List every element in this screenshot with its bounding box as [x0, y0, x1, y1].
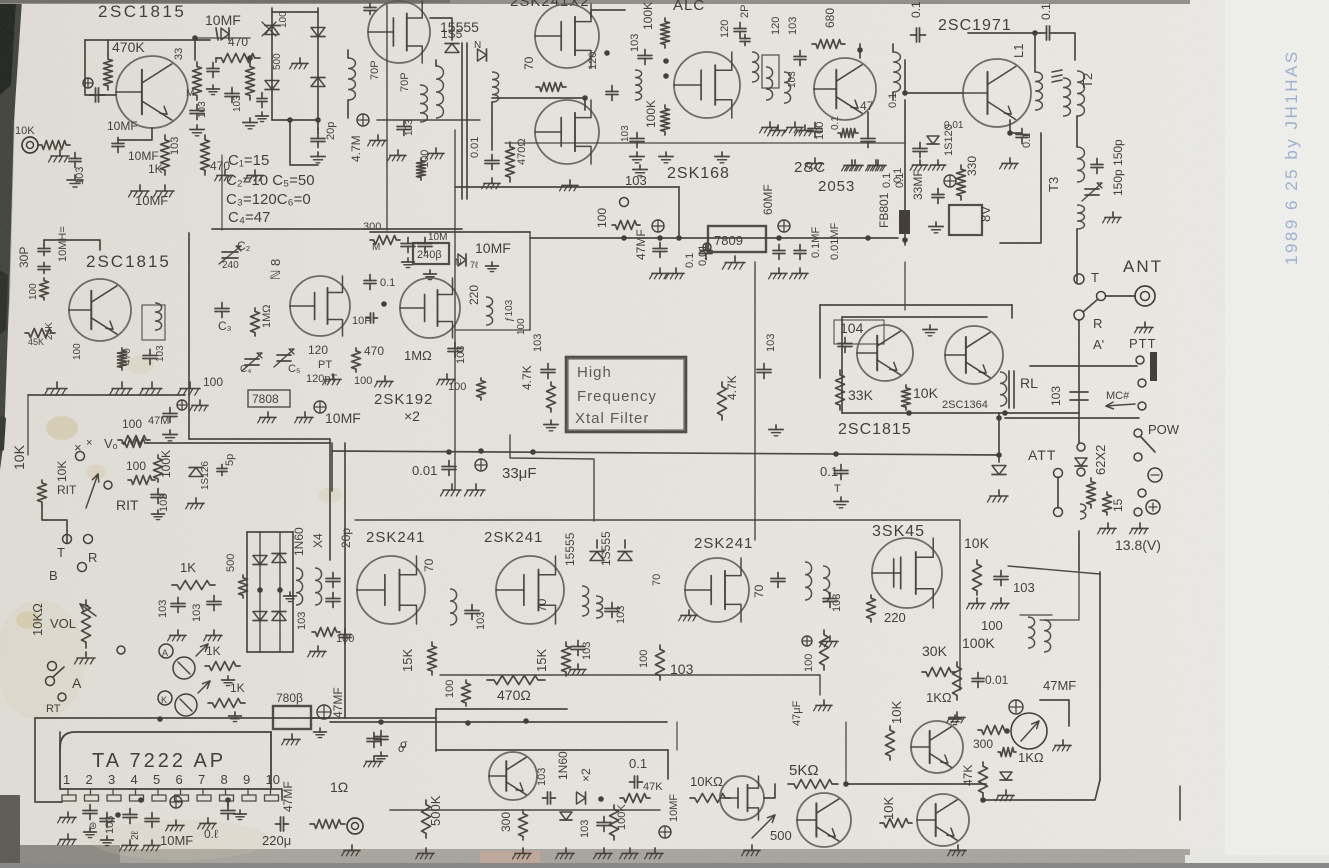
label 100 u9: [981, 618, 1003, 633]
label 100 u6b: [444, 680, 456, 698]
gnd att2: [1130, 523, 1149, 534]
cc ta: [170, 796, 182, 808]
switch pow: [1134, 429, 1155, 452]
fet U4 2SK192a: [290, 276, 350, 336]
wire ta right: [271, 789, 282, 800]
resistor 470 em: [201, 135, 210, 175]
resistor led k: [208, 699, 245, 708]
label T rail: [834, 483, 841, 495]
gnd 7809r: [769, 268, 788, 279]
label 300 vxo: [363, 221, 381, 233]
label B: [49, 568, 58, 583]
resistor 10k au: [690, 794, 730, 803]
box xtal filter: [566, 357, 686, 432]
gnd 10mf: [295, 412, 313, 423]
gnd u4c: [437, 374, 455, 385]
label 0.1 b: [830, 116, 841, 130]
gnd att1: [1098, 523, 1117, 534]
gnd q2c: [845, 160, 864, 171]
capacitor u3 top: [734, 23, 746, 38]
note C1=15: [228, 152, 269, 169]
label 2P: [739, 5, 751, 18]
label 103 rit: [158, 494, 170, 512]
label 500K: [428, 795, 443, 826]
capacitor b2: [808, 123, 822, 138]
wire relay vert: [996, 413, 1002, 462]
resistor 680: [812, 40, 845, 49]
wire agc rail2: [980, 780, 1100, 803]
label 103 u2: [625, 173, 647, 188]
resistor 300 vxo: [370, 236, 400, 245]
resistor att: [1087, 478, 1096, 508]
gnd zener: [996, 790, 1015, 801]
wire rx top frame: [355, 520, 960, 690]
fet U7: [496, 556, 564, 624]
wire rt vert: [35, 718, 60, 802]
resistor 10k q8: [880, 819, 912, 828]
capacitor u9: [994, 571, 1008, 586]
wire bridge bot: [272, 119, 318, 121]
label 1KOhm q7: [0, 0, 1, 1]
diode rx1: [590, 552, 604, 561]
label FB801: [877, 192, 891, 228]
box 7808 b: [273, 706, 311, 729]
coil T3b: [1077, 205, 1084, 229]
capacitor alc: [638, 50, 652, 65]
label 103 au2: [579, 820, 591, 838]
gnd led k: [229, 712, 242, 722]
label 70 u8b: [752, 584, 766, 598]
label 120pT: [306, 373, 337, 385]
resistor u8: [656, 645, 665, 680]
gnd col2: [243, 118, 257, 129]
capacitor t1: [397, 121, 411, 136]
switch A2: [46, 667, 65, 686]
diode 1s55: [445, 44, 459, 53]
label 15555: [440, 19, 479, 35]
gnd em2: [154, 185, 175, 197]
pot vol: [80, 600, 96, 648]
capacitor 5p: [217, 465, 227, 476]
gnd rail2: [465, 484, 486, 496]
gnd xfL: [544, 420, 558, 431]
wire emitter: [118, 128, 152, 140]
gnd bridge: [290, 58, 308, 69]
capacitor 47m: [163, 408, 177, 423]
gnd fb2: [928, 160, 945, 170]
label 2SK192: [374, 391, 433, 408]
label 0.1 fb: [892, 168, 904, 183]
switch ptt: [1136, 356, 1144, 364]
resistor 470 vxo: [118, 348, 127, 370]
wire note frame: [221, 155, 223, 230]
label 300 au: [499, 812, 513, 832]
gnd u9b: [991, 598, 1010, 609]
label High: [577, 364, 612, 381]
label 103 dsw: [296, 612, 308, 630]
wire rx bus: [754, 262, 756, 540]
label 103 u7: [615, 606, 627, 624]
gnd b4: [842, 160, 861, 171]
coil u6: [450, 589, 457, 625]
wire 33 node: [194, 38, 196, 60]
wire vxo rail: [28, 394, 185, 396]
switch mid2: [1077, 468, 1085, 476]
label 10MF top: [205, 12, 241, 28]
label 5KOhm: [789, 762, 819, 779]
gnd b3: [805, 158, 824, 169]
coil b3: [784, 72, 791, 103]
gnd t1: [368, 135, 386, 146]
label 100 u5: [448, 381, 466, 393]
gnd q8: [948, 845, 967, 856]
label 10K mic: [15, 125, 35, 137]
gnd 47m: [163, 430, 177, 441]
capacitor au4: [630, 776, 643, 788]
gnd 33: [190, 125, 204, 136]
gnd 7809: [722, 256, 745, 269]
wire base top: [85, 35, 210, 55]
resistor 4.7K R: [718, 382, 727, 420]
label 47MF ta: [281, 781, 295, 812]
capacitor xf L: [541, 364, 555, 379]
wire q2 out: [892, 44, 894, 100]
cap-plus fb: [944, 175, 956, 187]
label 100 dsw: [336, 633, 354, 645]
label 10KOhm au: [690, 774, 723, 789]
resistor gate u2: [536, 83, 566, 92]
wire filter top: [377, 119, 480, 121]
switch arm R: [1074, 299, 1098, 320]
diode 10mf: [455, 254, 466, 267]
wire coil lead: [491, 102, 493, 150]
label 103 au: [536, 768, 548, 786]
resistor 100k au: [610, 805, 619, 840]
label 15: [1111, 498, 1125, 512]
led K: [175, 681, 210, 716]
capacitor au2: [543, 792, 556, 804]
label 62X2: [1093, 445, 1108, 475]
capacitor 0.01a: [485, 155, 499, 170]
gnd 7808b2: [282, 734, 300, 745]
coil T1c: [436, 66, 443, 118]
label 15K u7: [534, 649, 549, 672]
coil vxo: [155, 303, 162, 330]
switch A3: [58, 693, 66, 701]
cap-plus 4.7M: [357, 114, 369, 126]
gnd aux tl2: [256, 112, 269, 122]
diode sw4: [272, 612, 286, 621]
resistor 10K u9: [973, 560, 982, 595]
coil T2b: [1077, 71, 1084, 116]
resistor 4.7K L: [547, 382, 556, 412]
label 1N60: [292, 527, 306, 556]
resistor col2: [246, 62, 255, 100]
switch mc2: [1138, 402, 1146, 410]
label 100K alc2: [644, 100, 658, 128]
resistor 100 rit: [128, 476, 155, 485]
label 100 u5b: [516, 318, 527, 335]
coil u7b: [596, 596, 603, 618]
label 2SC1364: [942, 399, 988, 411]
wire filter top2: [505, 142, 905, 144]
label 2SK241 b: [484, 529, 543, 546]
capacitor aux tl2: [257, 93, 267, 108]
wire hf link: [455, 329, 530, 331]
wire pa rail: [1000, 133, 1041, 243]
wire agc long: [440, 675, 820, 695]
transistor Q2 2SC2053: [814, 58, 876, 120]
coil u8a: [805, 562, 812, 600]
label VOL: [50, 616, 76, 631]
cc au: [659, 826, 671, 838]
coil L1: [1035, 72, 1042, 110]
coil alc: [635, 70, 642, 100]
gnd au4: [645, 848, 664, 859]
cc 7808b: [317, 705, 331, 719]
fet U1 top: [368, 1, 430, 63]
label 100 agc: [803, 654, 815, 672]
wire q2 vert: [904, 100, 906, 240]
label 103 mid1: [157, 600, 169, 618]
coil b1: [752, 52, 759, 82]
label 3SK45: [872, 523, 925, 540]
gnd b2: [785, 122, 804, 133]
label 47uF agc: [791, 700, 803, 726]
label 0.1 ta: [204, 827, 218, 841]
label 7809: [714, 233, 743, 248]
resistor 470ohm: [506, 142, 515, 182]
label 2408: [417, 249, 442, 261]
trimmer C2: [219, 239, 251, 264]
capacitor 10MF in: [83, 78, 105, 102]
gnd col3: [215, 170, 233, 181]
coil u5: [486, 297, 493, 325]
gnd em1: [129, 185, 150, 197]
gnd b1: [760, 122, 779, 133]
label 0.01 fb: [944, 120, 964, 131]
label 60MF: [761, 184, 775, 215]
switch pow2: [1134, 453, 1142, 461]
node 470: [247, 55, 253, 61]
resistor 470K: [104, 55, 113, 90]
cc 7809: [778, 220, 790, 232]
label 10MF base: [107, 119, 138, 133]
coil relay: [1000, 372, 1007, 406]
coil u7a: [582, 586, 589, 616]
capacitor xf R: [757, 364, 771, 379]
ptt bar: [1150, 352, 1157, 381]
diode D1: [265, 26, 279, 35]
label 220 u5: [467, 285, 481, 305]
label 4.7K L: [520, 365, 534, 390]
capacitor ta5: [221, 805, 235, 820]
label 100K u9: [962, 635, 995, 651]
wire t2 down: [1076, 116, 1078, 147]
capacitor 33mf: [913, 143, 927, 158]
capacitor u5: [448, 343, 462, 358]
gnd vxo3: [139, 382, 162, 395]
label 103 mic: [74, 167, 86, 185]
resistor 100 r8: [612, 221, 640, 230]
label 10MHz: [57, 226, 69, 262]
capacitor mid1: [171, 598, 185, 613]
wire relay bot: [842, 410, 1079, 416]
label 2SK168: [667, 165, 730, 182]
gnd r8b: [666, 268, 685, 279]
resistor 330: [957, 165, 966, 200]
label PT: [318, 359, 332, 371]
wire u2 drain: [591, 10, 625, 17]
label MC: [1106, 390, 1130, 402]
circle node r8: [620, 198, 629, 207]
label 10K q8: [881, 797, 896, 820]
circle A ind: [159, 644, 173, 658]
wire vo bus: [329, 443, 331, 560]
label 0.01MF: [829, 222, 841, 260]
resistor b 100: [838, 129, 858, 138]
label 30P: [17, 247, 31, 268]
capacitor 103 alc2: [630, 133, 644, 148]
label 30K: [922, 643, 948, 659]
circle minus: [1148, 468, 1162, 482]
node m: [1004, 728, 1010, 734]
wire ta7222 top: [59, 732, 61, 748]
label POW: [1148, 422, 1180, 437]
label 70P b: [399, 72, 411, 92]
gnd 8v: [929, 222, 943, 233]
label 0.01 rail: [412, 463, 437, 478]
label ANT: [1123, 257, 1163, 276]
gnd ta4: [142, 840, 160, 851]
label 470K: [112, 39, 145, 55]
gnd vxo t: [402, 258, 415, 268]
capacitor rail2: [834, 465, 848, 480]
zener m: [1000, 772, 1012, 780]
label 100K rit: [159, 450, 173, 478]
transistor Q8: [917, 794, 969, 846]
diode au1: [577, 792, 586, 804]
resistor 47k au: [620, 794, 650, 803]
label 15555 b: [599, 531, 613, 566]
wire ta out: [227, 800, 229, 806]
wire bridge frame: [272, 8, 318, 130]
relay bars: [1009, 371, 1014, 408]
led A: [173, 644, 208, 679]
wire q2 coll: [859, 44, 861, 58]
label 13.8V: [1115, 537, 1161, 553]
diode sw2: [272, 554, 286, 563]
capacitor ta4: [145, 813, 159, 828]
label 103c: [232, 95, 243, 112]
wire edge mark: [1179, 786, 1181, 820]
wire att down: [1078, 531, 1080, 570]
label Z8: [268, 259, 283, 280]
wire pow rail: [1005, 417, 1139, 419]
trimmer t3: [1082, 183, 1102, 201]
label 330: [965, 156, 979, 176]
label 120 u4: [308, 343, 328, 357]
wire L1: [1034, 33, 1036, 72]
label 100 rail: [122, 417, 142, 431]
label 1MOhm: [404, 348, 432, 363]
label 103 u5: [455, 346, 467, 364]
gnd pa em: [1000, 158, 1019, 169]
resistor 100 rail: [118, 436, 150, 445]
label 100 r8: [595, 208, 609, 228]
capacitor au3: [597, 817, 611, 832]
label 100 e: [72, 343, 83, 360]
label T2: [1080, 73, 1095, 88]
wire ant vert: [1078, 320, 1080, 443]
wire pa base: [902, 60, 963, 96]
transistor Q3 2SC1971: [963, 59, 1031, 127]
resistor 500 mid: [239, 575, 248, 598]
gnd b5: [866, 160, 885, 171]
node rail1: [621, 235, 908, 243]
gnd ta3: [120, 840, 139, 851]
resistor 1ohm: [310, 820, 345, 829]
note C4=47: [228, 209, 270, 226]
gnd vxo1: [44, 382, 67, 395]
capacitor ta2: [100, 813, 114, 846]
wire audio rail: [330, 718, 667, 726]
gnd q2d: [868, 160, 887, 171]
capacitor 104: [838, 338, 852, 353]
capacitor mid b: [367, 733, 381, 748]
box audio: [436, 709, 668, 779]
switch R: [84, 535, 98, 566]
capacitor 7809r: [773, 245, 785, 260]
label 7808 b: [276, 691, 303, 705]
label 103 alc2: [620, 125, 631, 142]
pins TA7222: [63, 772, 280, 787]
diode D2: [265, 81, 279, 90]
trimmer C5: [274, 349, 300, 375]
gnd ta6: [198, 818, 216, 829]
gnd mic2: [67, 175, 83, 187]
capacitor rit: [151, 489, 165, 504]
label 120 u2: [587, 52, 599, 70]
capacitor b: [794, 51, 806, 66]
label 70 u8: [651, 574, 663, 586]
wire mid vert 345: [344, 443, 346, 718]
jack audio out: [347, 818, 363, 834]
jack ANT: [1135, 286, 1155, 306]
capacitor 103 vxo: [143, 350, 157, 365]
label 103 ta2: [104, 816, 116, 834]
switch A1: [48, 662, 57, 671]
resistor 45K: [25, 329, 55, 348]
coil att: [1080, 504, 1086, 519]
fet U10: [720, 776, 764, 820]
label 470 vxo: [122, 348, 133, 365]
label 500 d2: [272, 53, 283, 70]
wire t1c top: [435, 60, 437, 66]
label 100 b: [814, 122, 826, 140]
label 1KOhm u9: [926, 690, 952, 705]
resistor mic 10K: [38, 141, 70, 150]
capacitor 10MF emitter: [112, 138, 124, 153]
wire rail 8v: [530, 237, 898, 239]
diode D4: [311, 78, 325, 87]
coil u9 out: [1020, 615, 1052, 652]
resistor rit: [38, 480, 47, 505]
wire 15555 vert pair: [462, 43, 467, 199]
gnd agc: [814, 700, 833, 711]
gnd col4: [245, 170, 263, 181]
circle node r8b: [703, 243, 711, 251]
